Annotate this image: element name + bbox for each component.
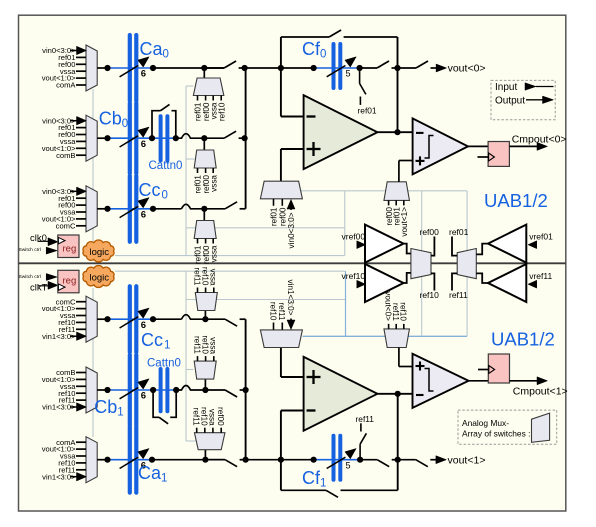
svg-text:5: 5 [346, 460, 351, 470]
svg-text:Cmpout<1>: Cmpout<1> [513, 386, 568, 398]
svg-text:Cb: Cb [94, 397, 117, 417]
svg-text:0: 0 [162, 190, 168, 202]
svg-text:ref00: ref00 [279, 207, 288, 226]
svg-text:Analog Mux-: Analog Mux- [462, 418, 509, 428]
svg-text:vssa: vssa [209, 175, 218, 192]
svg-text:ref10: ref10 [399, 302, 408, 321]
svg-text:Switch ctrl: Switch ctrl [19, 247, 41, 253]
svg-text:Cattn0: Cattn0 [147, 358, 181, 370]
svg-text:Switch ctrl: Switch ctrl [19, 274, 41, 280]
svg-text:logic: logic [90, 273, 110, 284]
svg-text:Ca: Ca [140, 39, 164, 59]
svg-text:vin1<3:0>: vin1<3:0> [42, 332, 76, 341]
svg-text:0: 0 [163, 49, 169, 61]
svg-text:ref00: ref00 [420, 227, 440, 237]
svg-text:ref11: ref11 [192, 408, 201, 426]
svg-text:vref11: vref11 [529, 271, 552, 281]
svg-text:ref10: ref10 [200, 267, 209, 286]
svg-text:1: 1 [161, 473, 167, 485]
svg-text:ref11: ref11 [277, 302, 286, 320]
svg-text:Input: Input [495, 82, 517, 93]
svg-text:Cattn0: Cattn0 [149, 160, 183, 172]
svg-text:ref10: ref10 [217, 102, 226, 121]
svg-text:vref01: vref01 [529, 231, 553, 241]
svg-text:vin0<3:0>: vin0<3:0> [287, 212, 296, 248]
svg-text:0: 0 [320, 49, 326, 61]
svg-text:comB: comB [56, 151, 75, 160]
svg-text:Output: Output [495, 96, 525, 107]
svg-text:0: 0 [122, 118, 128, 130]
svg-text:vssa: vssa [208, 409, 217, 426]
svg-text:Cc: Cc [139, 180, 161, 200]
svg-text:1: 1 [320, 478, 326, 490]
svg-text:ref11: ref11 [449, 290, 468, 300]
svg-text:vssa: vssa [209, 269, 218, 286]
svg-text:UAB1/2: UAB1/2 [484, 190, 548, 211]
svg-text:1: 1 [164, 340, 170, 352]
svg-text:UAB1/2: UAB1/2 [491, 329, 555, 350]
svg-text:6: 6 [141, 139, 146, 150]
svg-text:comA: comA [56, 81, 76, 90]
svg-text:Ca: Ca [138, 463, 162, 483]
svg-text:comC: comC [56, 221, 76, 230]
svg-text:ref10: ref10 [268, 302, 277, 321]
svg-text:vout<0>: vout<0> [448, 63, 486, 75]
svg-text:clkT: clkT [30, 282, 48, 293]
svg-text:vin1<3:0>: vin1<3:0> [42, 472, 76, 481]
svg-text:clk0: clk0 [30, 233, 47, 244]
svg-text:ref10: ref10 [200, 407, 209, 426]
svg-text:vout<1>: vout<1> [400, 207, 409, 237]
svg-text:logic: logic [90, 247, 110, 258]
svg-text:1: 1 [117, 407, 123, 419]
svg-text:6: 6 [141, 391, 146, 402]
svg-text:Cc: Cc [141, 330, 163, 350]
svg-text:Cf: Cf [302, 39, 321, 59]
svg-text:Cmpout<0>: Cmpout<0> [512, 134, 567, 146]
svg-text:Cf: Cf [302, 468, 321, 488]
svg-text:reg: reg [63, 243, 77, 254]
svg-text:ref00: ref00 [216, 407, 225, 426]
svg-text:ref10: ref10 [200, 335, 209, 354]
svg-text:ref11: ref11 [192, 336, 201, 354]
svg-text:6: 6 [141, 69, 146, 80]
svg-text:vin1<3:0>: vin1<3:0> [286, 280, 295, 316]
svg-text:5: 5 [346, 69, 351, 79]
svg-text:ref11: ref11 [192, 267, 201, 285]
svg-text:6: 6 [141, 209, 146, 220]
svg-text:ref01: ref01 [358, 106, 377, 116]
svg-text:ref10: ref10 [420, 290, 440, 300]
svg-text:ref01: ref01 [270, 207, 279, 226]
svg-text:vout<1>: vout<1> [448, 454, 486, 466]
svg-text:vssa: vssa [209, 337, 218, 354]
svg-text:vref00: vref00 [342, 231, 366, 241]
svg-text:ref01: ref01 [449, 227, 469, 237]
svg-text:Cb: Cb [99, 109, 122, 129]
svg-text:ref11: ref11 [356, 414, 375, 424]
svg-text:Array of switches :: Array of switches : [462, 429, 530, 439]
svg-text:vin1<3:0>: vin1<3:0> [42, 403, 76, 412]
svg-text:reg: reg [63, 276, 77, 287]
svg-text:vssa: vssa [209, 245, 218, 262]
svg-text:vref10: vref10 [342, 271, 366, 281]
